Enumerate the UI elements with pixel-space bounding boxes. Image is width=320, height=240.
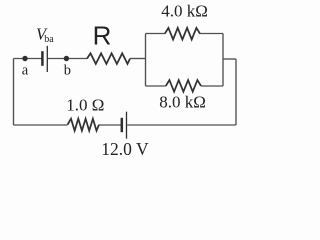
wire bottom branch right lead [201, 85, 223, 87]
parallel box right side [222, 34, 224, 87]
battery 12.0 V positive plate [126, 112, 128, 139]
resistor 8.0 kohm [166, 80, 201, 92]
battery 12.0 V negative plate [121, 118, 124, 132]
wire bottom to battery [99, 124, 121, 126]
wire top from corner to battery [14, 58, 42, 60]
node a [22, 56, 27, 61]
svg-text:b: b [64, 63, 71, 79]
node b [64, 56, 69, 61]
svg-text:8.0 kΩ: 8.0 kΩ [159, 93, 206, 112]
svg-text:a: a [22, 63, 29, 79]
resistor 1.0 ohm [68, 119, 100, 131]
battery Vba positive plate [46, 46, 48, 72]
resistor 4.0 kohm [165, 28, 200, 40]
wire bottom branch left lead [146, 85, 166, 87]
wire R to parallel box [130, 58, 146, 60]
wire right stub to parallel box [223, 58, 236, 60]
wire bottom left segment [14, 124, 68, 126]
wire bottom right segment [127, 124, 236, 126]
svg-text:4.0 kΩ: 4.0 kΩ [161, 1, 208, 20]
wire left vertical [13, 59, 15, 126]
wire top branch left lead [146, 33, 165, 35]
svg-text:1.0 Ω: 1.0 Ω [66, 95, 104, 114]
wire top branch right lead [200, 33, 223, 35]
wire battery to resistor R [48, 58, 87, 60]
resistor R [87, 53, 130, 64]
parallel box left side [145, 34, 147, 87]
battery Vba negative plate [41, 51, 44, 66]
svg-text:12.0 V: 12.0 V [101, 139, 149, 159]
svg-text:ba: ba [44, 34, 54, 45]
wire right vertical [235, 59, 237, 125]
svg-text:R: R [93, 20, 112, 50]
